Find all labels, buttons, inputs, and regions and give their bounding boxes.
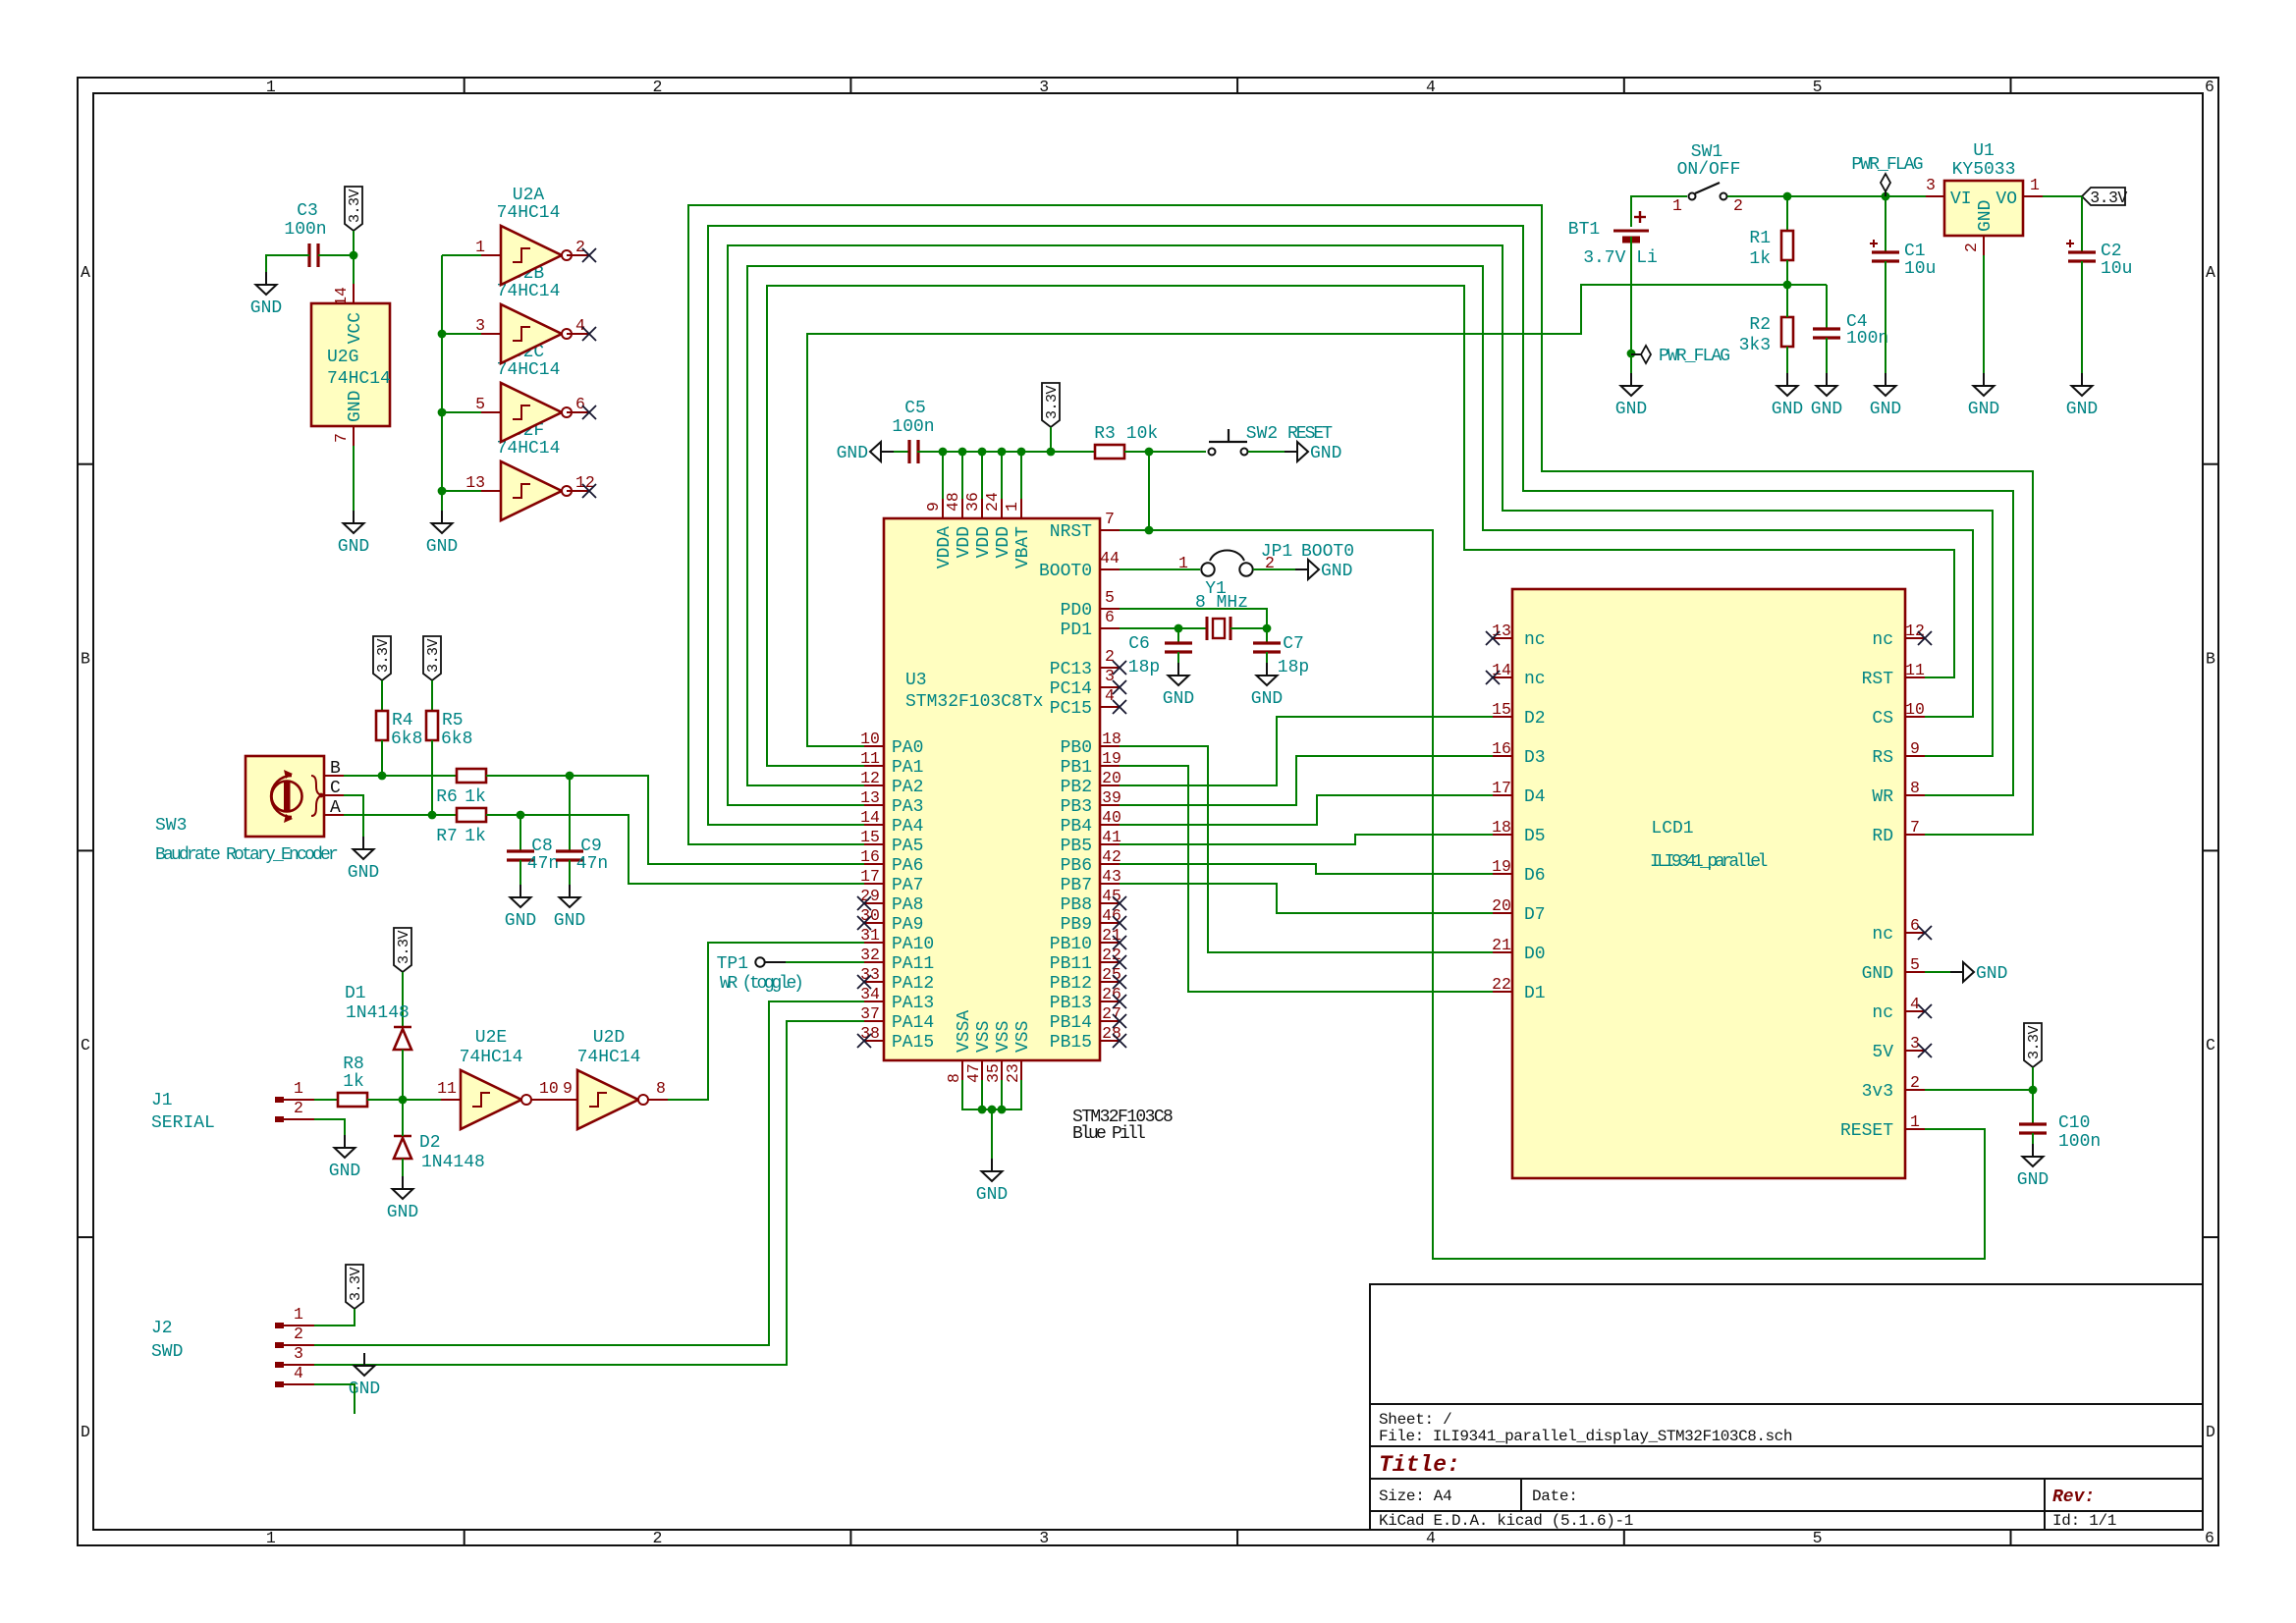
svg-text:PB12: PB12 [1050, 974, 1092, 994]
U3 pin 22 PB11 [1100, 946, 1121, 964]
ground [348, 837, 379, 883]
IC LCD1 ILI9341_parallel body [1512, 589, 1905, 1178]
svg-text:PA3: PA3 [892, 797, 923, 817]
U2G pin 7 GND [332, 426, 354, 446]
svg-text:PB9: PB9 [1061, 915, 1092, 935]
wire crystal to C7 node [1230, 627, 1267, 629]
wire encoder A to R7 [344, 814, 457, 816]
svg-text:1: 1 [2030, 176, 2040, 194]
svg-text:RD: RD [1872, 827, 1893, 846]
svg-text:VBAT: VBAT [1013, 526, 1033, 568]
svg-text:VSS: VSS [1013, 1021, 1033, 1053]
svg-text:6: 6 [1105, 608, 1115, 626]
wire jumper to GND [1253, 568, 1295, 570]
wire BOOT0 to jumper [1120, 568, 1200, 570]
resistor R1 [1749, 229, 1793, 269]
svg-text:D3: D3 [1524, 748, 1546, 768]
svg-text:VDD: VDD [974, 526, 994, 558]
power flag 3.3V [373, 636, 392, 680]
no-connect [1486, 671, 1500, 684]
inverter U2A [475, 226, 589, 285]
svg-text:WR: WR [1872, 787, 1893, 807]
svg-text:A: A [81, 263, 90, 282]
ground [349, 1353, 380, 1399]
svg-text:VCC: VCC [346, 312, 365, 345]
wire to inverter input [442, 254, 481, 256]
no-connect [1113, 955, 1126, 969]
svg-text:PB8: PB8 [1061, 895, 1092, 915]
svg-text:GND: GND [1976, 964, 2007, 984]
diode D1 1N4148 [345, 984, 411, 1050]
svg-text:RESET: RESET [1287, 424, 1333, 444]
svg-text:C1: C1 [1904, 242, 1926, 261]
resistor R6 [436, 769, 486, 807]
junction [1175, 624, 1183, 633]
junction [1263, 624, 1272, 633]
wire VSS down [1001, 1080, 1003, 1109]
svg-text:36: 36 [963, 492, 982, 512]
inverter U2B [475, 304, 589, 363]
wire C10 drop [2032, 1090, 2034, 1123]
wire net RD PA5 [688, 205, 2033, 844]
U3 pin 10 PA0 [860, 730, 884, 748]
wire SW2 to GND [1248, 451, 1285, 453]
svg-text:PC15: PC15 [1050, 699, 1092, 719]
resistor R3 [1094, 424, 1158, 459]
wire net WR PA4 [708, 226, 2013, 825]
svg-text:J1: J1 [151, 1091, 173, 1110]
svg-text:1N4148: 1N4148 [421, 1153, 485, 1172]
svg-text:BOOT0: BOOT0 [1301, 542, 1354, 562]
svg-text:PD0: PD0 [1061, 601, 1092, 621]
svg-text:STM32F103C8Tx: STM32F103C8Tx [905, 692, 1043, 712]
svg-text:GND: GND [250, 298, 282, 318]
U3 pin 43 PB7 [1100, 867, 1121, 886]
svg-text:3: 3 [1039, 78, 1049, 96]
U3 pin 45 PB8 [1100, 887, 1121, 905]
svg-text:3k3: 3k3 [1739, 336, 1771, 355]
svg-text:GND: GND [976, 1185, 1008, 1205]
capacitor C10 [2019, 1113, 2101, 1152]
U3 pin 16 PA6 [860, 847, 884, 866]
wire switch to regulator [1727, 195, 1926, 197]
svg-text:Rev:: Rev: [2052, 1488, 2095, 1507]
svg-text:GND: GND [1811, 400, 1842, 419]
wire 3.3V to D1 [402, 972, 404, 1027]
ground [1772, 373, 1803, 419]
capacitor C7 [1253, 634, 1309, 677]
wire R2 to GND [1786, 347, 1788, 373]
svg-text:D: D [81, 1423, 90, 1441]
power flag 3.3V [2024, 1023, 2043, 1067]
LCD1 pin 19 D6 [1492, 857, 1512, 876]
wire C4 top [1826, 285, 1828, 328]
wire VSSA down [962, 1080, 1021, 1109]
wire net RST PA1 [767, 286, 1954, 766]
wire J2 pin3 SWCLK to PA14 [314, 1021, 864, 1365]
junction [1783, 281, 1792, 290]
svg-text:2: 2 [1962, 243, 1981, 252]
svg-text:WR (toggle): WR (toggle) [720, 974, 801, 994]
U3 pin 17 PA7 [860, 867, 884, 886]
wire to inverter input [442, 333, 481, 335]
svg-text:BT1: BT1 [1568, 220, 1600, 240]
svg-text:VSS: VSS [974, 1021, 994, 1053]
svg-text:10u: 10u [2101, 259, 2132, 279]
resistor R2 [1739, 315, 1793, 355]
junction [399, 1096, 408, 1105]
inverter U2F [465, 461, 595, 520]
svg-text:3: 3 [1105, 667, 1115, 685]
svg-text:PA10: PA10 [892, 935, 934, 954]
svg-text:35: 35 [984, 1063, 1003, 1083]
svg-text:PB15: PB15 [1050, 1033, 1092, 1053]
svg-text:Sheet: /: Sheet: / [1379, 1411, 1451, 1429]
wire 3.3V to R5 [431, 680, 433, 711]
svg-text:VDDA: VDDA [935, 526, 955, 568]
svg-text:1: 1 [266, 78, 276, 96]
wire net NRST to LCD RESET [1149, 530, 1985, 1259]
wire D1 to node [402, 1050, 404, 1100]
wire D2 to GND [402, 1159, 404, 1176]
ground [1968, 373, 1999, 419]
no-connect [857, 1034, 871, 1048]
svg-text:PA15: PA15 [892, 1033, 934, 1053]
U3 pin 15 PA5 [860, 828, 884, 846]
svg-text:7: 7 [332, 433, 351, 443]
U3 top pin 24 [983, 492, 1002, 518]
svg-text:VSS: VSS [994, 1021, 1013, 1053]
U3 pin 18 PB0 [1100, 730, 1121, 748]
svg-text:RESET: RESET [1840, 1121, 1893, 1141]
wire U2G GND pin down [353, 446, 355, 511]
svg-text:7: 7 [1105, 510, 1115, 528]
resistor R5 [426, 711, 472, 749]
wire battery minus [1630, 237, 1632, 373]
svg-text:1: 1 [1003, 502, 1021, 512]
svg-text:44: 44 [1100, 549, 1120, 568]
junction [978, 448, 987, 457]
wire R7 to PA7 [486, 815, 864, 884]
wire encoder C to GND [344, 795, 363, 837]
svg-text:12: 12 [1905, 622, 1925, 640]
power flag 3.3V output [2082, 188, 2127, 207]
LCD1 pin 10 CS [1905, 700, 1925, 719]
no-connect [582, 406, 596, 419]
U3 pin 46 PB9 [1100, 906, 1121, 925]
svg-text:PA14: PA14 [892, 1013, 934, 1033]
svg-text:PC13: PC13 [1050, 660, 1092, 679]
svg-text:100n: 100n [892, 417, 934, 437]
svg-text:GND: GND [338, 537, 369, 557]
ground [1251, 663, 1283, 709]
wire net D7 PB7 [1120, 884, 1493, 913]
wire LCD 3v3 [1925, 1089, 2033, 1091]
wire C1 top [1885, 196, 1886, 251]
svg-text:4: 4 [1105, 686, 1115, 705]
U3 pin 4 PC15 [1100, 686, 1120, 707]
junction [350, 251, 358, 260]
no-connect [582, 327, 596, 341]
svg-text:BOOT0: BOOT0 [1039, 562, 1092, 581]
svg-text:Size: A4: Size: A4 [1379, 1488, 1451, 1505]
wire R2 body gap [1786, 285, 1788, 317]
wire net D4 PB4 [1120, 795, 1493, 825]
svg-text:SERIAL: SERIAL [151, 1113, 215, 1133]
inverter labels U2A-U2F [497, 186, 561, 459]
wire bus to VDD pin [981, 452, 983, 499]
svg-text:D7: D7 [1524, 905, 1546, 925]
switch SW1 ON/OFF [1672, 142, 1743, 215]
svg-text:VSSA: VSSA [955, 1010, 974, 1053]
svg-text:C6: C6 [1128, 634, 1150, 654]
svg-text:PA5: PA5 [892, 837, 923, 856]
svg-text:1k: 1k [465, 827, 486, 846]
jumper JP1 [1178, 542, 1354, 576]
no-connect [857, 896, 871, 910]
svg-text:D1: D1 [345, 984, 366, 1003]
svg-text:3v3: 3v3 [1862, 1082, 1893, 1102]
svg-text:PB2: PB2 [1061, 778, 1092, 797]
svg-text:3: 3 [1926, 176, 1936, 194]
wire bus to VDD pin [1001, 452, 1003, 499]
LCD1 pin 14 nc [1492, 661, 1512, 679]
wire C7 to GND [1266, 652, 1268, 663]
ground [387, 1176, 418, 1222]
svg-text:C9: C9 [580, 837, 602, 856]
svg-text:GND: GND [346, 391, 365, 422]
no-connect [1486, 631, 1500, 645]
svg-text:PB6: PB6 [1061, 856, 1092, 876]
svg-text:PA4: PA4 [892, 817, 923, 837]
U3 top pin 36 [963, 492, 982, 518]
svg-text:20: 20 [1492, 896, 1511, 915]
svg-text:21: 21 [1492, 936, 1511, 954]
LCD1 pin 11 RST [1905, 661, 1925, 679]
svg-text:nc: nc [1872, 1003, 1893, 1023]
svg-text:C: C [330, 779, 341, 798]
svg-text:5: 5 [1910, 955, 1920, 974]
junction [428, 811, 437, 820]
U3 top pin 48 [944, 492, 962, 518]
svg-text:3.3V: 3.3V [425, 639, 442, 674]
svg-text:GND: GND [426, 537, 458, 557]
junction [1145, 526, 1154, 535]
wire R1 to R2 [1786, 260, 1788, 285]
svg-text:42: 42 [1102, 847, 1121, 866]
svg-text:C7: C7 [1283, 634, 1304, 654]
svg-text:16: 16 [1492, 739, 1511, 758]
capacitor C5 [892, 399, 934, 463]
LCD1 pin 9 RS [1905, 739, 1925, 758]
wire C5 to GND flag [894, 451, 909, 453]
svg-text:3.3V: 3.3V [1044, 386, 1061, 420]
wire net D1 PB1 [1120, 766, 1493, 992]
wire bus to VDD pin [1020, 452, 1022, 499]
svg-text:GND: GND [1968, 400, 1999, 419]
svg-text:2: 2 [575, 238, 585, 256]
U3 pin 34 PA13 [860, 985, 884, 1003]
svg-text:6: 6 [1910, 916, 1920, 935]
svg-text:PB14: PB14 [1050, 1013, 1092, 1033]
U3 pin 25 PB12 [1100, 965, 1121, 984]
junction [1783, 192, 1792, 201]
svg-text:3.3V: 3.3V [375, 639, 392, 674]
svg-text:4: 4 [1426, 1529, 1436, 1547]
inverter U2C [475, 383, 589, 442]
inverter U2E [437, 1070, 559, 1129]
LCD1 pin 3 5V [1905, 1034, 1925, 1053]
wire U1 out to 3.3V [2043, 195, 2082, 197]
junction [517, 811, 525, 820]
svg-text:1: 1 [1178, 554, 1188, 572]
svg-text:C5: C5 [904, 399, 926, 418]
svg-text:22: 22 [1492, 975, 1511, 994]
svg-text:R6: R6 [436, 787, 458, 807]
junction [939, 448, 948, 457]
LCD1 pin 20 D7 [1492, 896, 1512, 915]
svg-text:C2: C2 [2101, 242, 2122, 261]
junction [1145, 448, 1154, 457]
U3 pin 3 PC14 [1100, 667, 1120, 687]
svg-text:Id: 1/1: Id: 1/1 [2052, 1512, 2116, 1530]
ground [1870, 373, 1901, 419]
U3 pin 13 PA3 [860, 788, 884, 807]
wire U1 GND to ground [1983, 255, 1985, 373]
svg-text:74HC14: 74HC14 [327, 369, 391, 389]
wire node to D2 [402, 1100, 404, 1136]
LCD1 pin 17 D4 [1492, 779, 1512, 797]
svg-text:10u: 10u [1904, 259, 1936, 279]
svg-text:U1: U1 [1973, 141, 1995, 161]
svg-text:D0: D0 [1524, 945, 1546, 964]
U3 pin 41 PB5 [1100, 828, 1121, 846]
svg-text:2: 2 [1733, 196, 1743, 215]
connector J2 SWD [151, 1305, 314, 1387]
wire C8 to GND [519, 860, 521, 885]
svg-text:1: 1 [294, 1305, 303, 1324]
no-connect [1113, 995, 1126, 1008]
LCD1 pin 8 WR [1905, 779, 1925, 797]
svg-text:9: 9 [563, 1079, 573, 1098]
svg-text:D1: D1 [1524, 984, 1546, 1003]
wire net D3 PB3 [1120, 756, 1493, 805]
svg-text:5: 5 [1813, 78, 1823, 96]
resistor R7 [436, 808, 486, 846]
wire U2D out to PA10 [668, 943, 864, 1100]
wire J2 pin1 to 3.3V [314, 1309, 355, 1325]
wire NRST to net [1120, 529, 1149, 531]
svg-text:KY5033: KY5033 [1952, 160, 2016, 180]
wire C9 to GND [569, 860, 571, 885]
svg-text:C: C [2206, 1036, 2215, 1055]
svg-text:74HC14: 74HC14 [497, 203, 561, 223]
U3 pin 37 PA14 [860, 1004, 884, 1023]
wire net D6 PB6 [1120, 864, 1493, 874]
wire 3.3V to R4 [381, 680, 383, 711]
svg-text:VDD: VDD [955, 526, 974, 558]
wire J1 pin2 to GND [314, 1119, 345, 1135]
ground [426, 511, 458, 557]
svg-text:18: 18 [1102, 730, 1121, 748]
wire inverter input bus [441, 255, 443, 511]
wire PD1 to crystal left [1120, 627, 1206, 629]
U3 pin 27 PB14 [1100, 1004, 1121, 1023]
connector J1 SERIAL [151, 1079, 314, 1133]
svg-text:3.3V: 3.3V [2026, 1026, 2043, 1060]
svg-text:47n: 47n [576, 854, 608, 874]
wire 3.3V to VDD bus [1050, 427, 1052, 452]
svg-text:41: 41 [1102, 828, 1121, 846]
svg-text:NRST: NRST [1050, 522, 1092, 542]
no-connect [857, 916, 871, 930]
junction [1047, 448, 1056, 457]
svg-text:CS: CS [1872, 709, 1893, 729]
svg-text:39: 39 [1102, 788, 1121, 807]
svg-text:R5: R5 [442, 711, 464, 730]
battery BT1 [1568, 211, 1658, 268]
svg-text:9: 9 [1910, 739, 1920, 758]
svg-text:1: 1 [1672, 196, 1682, 215]
svg-text:19: 19 [1492, 857, 1511, 876]
svg-text:VDD: VDD [994, 526, 1013, 558]
svg-text:C8: C8 [531, 837, 553, 856]
wire to inverter input [442, 490, 481, 492]
no-connect [582, 248, 596, 262]
junction [378, 772, 387, 781]
svg-text:PB5: PB5 [1061, 837, 1092, 856]
svg-text:Blue Pill: Blue Pill [1072, 1124, 1145, 1144]
svg-text:GND: GND [329, 1162, 360, 1181]
svg-text:100n: 100n [284, 220, 326, 240]
U3 pin 44 BOOT0 [1100, 549, 1120, 569]
LCD1 pin 15 D2 [1492, 700, 1512, 719]
svg-text:PA6: PA6 [892, 856, 923, 876]
ground [1811, 373, 1842, 419]
no-connect [1113, 680, 1126, 694]
no-connect [1113, 975, 1126, 989]
U3 bottom pin 23 [1004, 1060, 1022, 1083]
capacitor C8 [507, 837, 559, 874]
LCD1 pin 13 nc [1492, 622, 1512, 640]
LCD1 pin 4 nc [1905, 995, 1925, 1013]
svg-text:9: 9 [924, 502, 943, 512]
svg-text:A: A [330, 798, 341, 818]
U3 pin 33 PA12 [860, 965, 884, 984]
svg-text:3: 3 [294, 1344, 303, 1363]
svg-text:18: 18 [1492, 818, 1511, 837]
U3 pin 40 PB4 [1100, 808, 1121, 827]
U2G pin 14 VCC [332, 284, 354, 306]
wire C10 to GND [2032, 1133, 2034, 1144]
svg-text:5: 5 [475, 395, 485, 413]
junction [438, 487, 447, 496]
svg-text:D: D [2206, 1423, 2215, 1441]
no-connect [1918, 631, 1932, 645]
LCD1 pin 12 nc [1905, 622, 1925, 640]
wire C3 to GND [266, 255, 309, 272]
svg-text:5: 5 [1105, 588, 1115, 607]
wire net D2 PB2 [1120, 717, 1493, 785]
ground [1295, 560, 1352, 581]
wire net D5 PB5 [1120, 835, 1493, 844]
U1 pin 3 [1926, 176, 1944, 196]
U3 pin 11 PA1 [860, 749, 884, 768]
svg-text:100n: 100n [1846, 329, 1888, 349]
U3 pin 14 PA4 [860, 808, 884, 827]
title block [1370, 1284, 2203, 1530]
power flag 3.3V [423, 636, 442, 680]
